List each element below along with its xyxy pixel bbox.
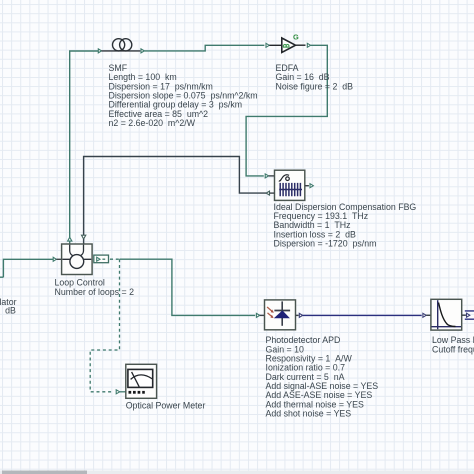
- port arrow: EDFA output: [307, 43, 310, 47]
- scrollbar track bottom: [0, 471, 474, 474]
- diode D1: Photodetector APD box: [265, 300, 296, 330]
- port arrow: EDFA input: [266, 43, 269, 47]
- scrollbar thumb bottom-left: [2, 471, 87, 474]
- label: Loop Control: [55, 278, 135, 297]
- port arrow: FBG output 2 (pointing left): [266, 191, 274, 195]
- port arrow: Optical Power Meter input: [116, 390, 126, 394]
- wire: EDFA output down and around to FBG input 1: [246, 45, 327, 176]
- port arrow: Loop Control top input (pointing down): [82, 235, 86, 244]
- port arrow: Loop Control left input: [53, 257, 61, 261]
- svg-text:dB: dB: [5, 305, 16, 315]
- svg-text:Cutoff frequency = 0.75: Cutoff frequency = 0.75: [432, 344, 474, 354]
- wire: FBG output 2 back to Loop Control top input: [84, 157, 267, 236]
- port arrow: FBG input 1: [265, 174, 274, 178]
- wire: twin electrical lines exiting right edge: [465, 311, 474, 319]
- wire: electrical from Photodetector to Low Pass filter: [303, 314, 422, 316]
- wire: SMF output to EDFA input with step up at x=205: [144, 45, 264, 51]
- port arrow: Photodetector output: [296, 313, 303, 317]
- label: FBG parameters: [274, 202, 417, 249]
- label: Optical Power Meter: [126, 401, 206, 411]
- label: Photodetector APD parameters: [266, 335, 379, 418]
- svg-text:Optical Power Meter: Optical Power Meter: [126, 401, 206, 411]
- label: left-edge component fragment: [0, 297, 17, 315]
- fiber SMF coil icon: [102, 39, 141, 51]
- port arrow: SMF output: [141, 49, 144, 53]
- component: Fork small box at Loop Control output: [94, 255, 109, 263]
- port arrow: Low Pass filter output: [462, 313, 470, 317]
- port stub: FBG right output (unconnected): [305, 184, 314, 188]
- value label: G gain mark: [293, 33, 299, 42]
- port arrow: Photodetector input: [256, 313, 264, 317]
- svg-text:G: G: [293, 33, 299, 42]
- svg-text:Number of loops = 2: Number of loops = 2: [55, 287, 135, 297]
- svg-text:Add shot noise = YES: Add shot noise = YES: [266, 409, 352, 419]
- label: SMF parameters: [109, 63, 258, 128]
- svg-text:n2 = 2.6e-020 m^2/W: n2 = 2.6e-020 m^2/W: [109, 118, 196, 128]
- filter FBG: Ideal Dispersion Compensation FBG box: [275, 170, 305, 200]
- port arrow: Low Pass filter input: [423, 313, 431, 317]
- label: EDFA parameters: [276, 63, 354, 91]
- label: Low Pass Bessel Filter: [432, 335, 474, 354]
- filter F1: Low Pass Bessel Filter box: [431, 299, 462, 330]
- component U1: Loop Control box: [62, 244, 93, 275]
- wire: top horizontal y=51 to SMF input: [69, 50, 98, 52]
- svg-text:Dispersion = -1720 ps/nm: Dispersion = -1720 ps/nm: [274, 239, 377, 249]
- port arrow: Loop Control top output (pointing up): [68, 237, 72, 244]
- wire: dashed stub from fork to junction: [110, 258, 120, 260]
- wire: feedback vertical from Loop Control top output up to y=51: [69, 51, 71, 238]
- op-amp style amplifier EDFA icon: [269, 38, 305, 52]
- wire: fork output to Photodetector input: [120, 259, 256, 315]
- wire: dashed monitor line from fork down/around to Optical Power Meter: [90, 259, 119, 392]
- wire: left edge feed into Loop Control input: [0, 259, 53, 277]
- port arrow: SMF input: [98, 49, 101, 53]
- meter: Optical Power Meter box: [126, 364, 157, 398]
- svg-text:Noise figure = 2 dB: Noise figure = 2 dB: [276, 81, 354, 91]
